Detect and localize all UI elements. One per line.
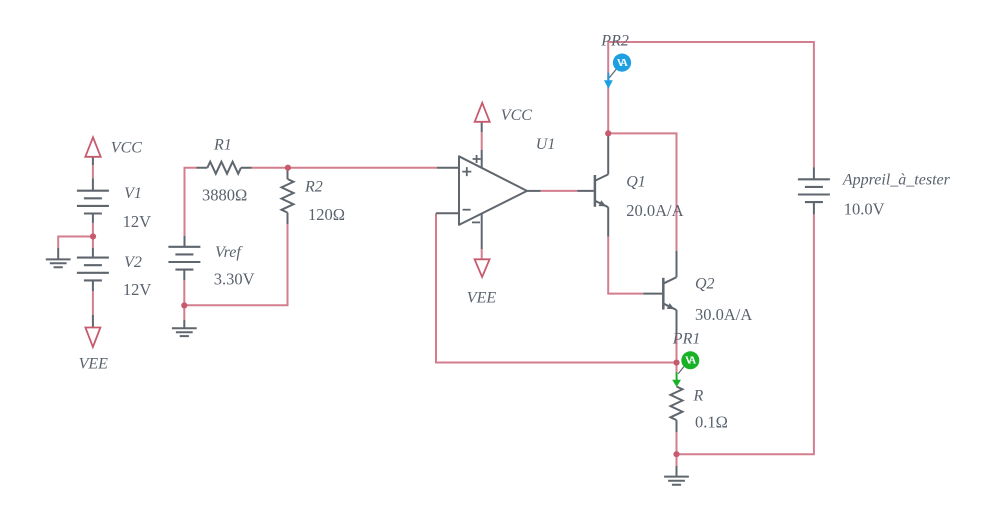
svg-text:V2: V2 — [124, 254, 142, 271]
svg-text:20.0A/A: 20.0A/A — [626, 201, 683, 220]
svg-text:Vref: Vref — [215, 244, 243, 261]
svg-text:PR2: PR2 — [600, 33, 629, 50]
svg-text:VCC: VCC — [501, 107, 532, 124]
svg-text:12V: 12V — [123, 280, 151, 299]
svg-text:R: R — [693, 388, 704, 405]
svg-text:R1: R1 — [213, 136, 232, 153]
svg-text:3.30V: 3.30V — [214, 270, 255, 289]
svg-text:10.0V: 10.0V — [844, 199, 885, 218]
svg-text:3880Ω: 3880Ω — [202, 185, 247, 204]
svg-text:Appreil_à_tester: Appreil_à_tester — [842, 172, 951, 189]
svg-text:12V: 12V — [123, 212, 152, 231]
svg-text:VEE: VEE — [79, 356, 109, 373]
svg-text:0.1Ω: 0.1Ω — [695, 413, 728, 432]
svg-text:120Ω: 120Ω — [308, 205, 345, 224]
svg-text:V1: V1 — [124, 185, 142, 202]
svg-text:U1: U1 — [536, 136, 556, 153]
svg-text:PR1: PR1 — [672, 331, 701, 348]
svg-text:VCC: VCC — [111, 139, 142, 156]
svg-text:Q1: Q1 — [626, 173, 646, 190]
svg-text:30.0A/A: 30.0A/A — [695, 305, 752, 324]
svg-text:R2: R2 — [304, 179, 323, 196]
svg-text:VEE: VEE — [467, 290, 497, 307]
svg-text:Q2: Q2 — [695, 275, 715, 292]
